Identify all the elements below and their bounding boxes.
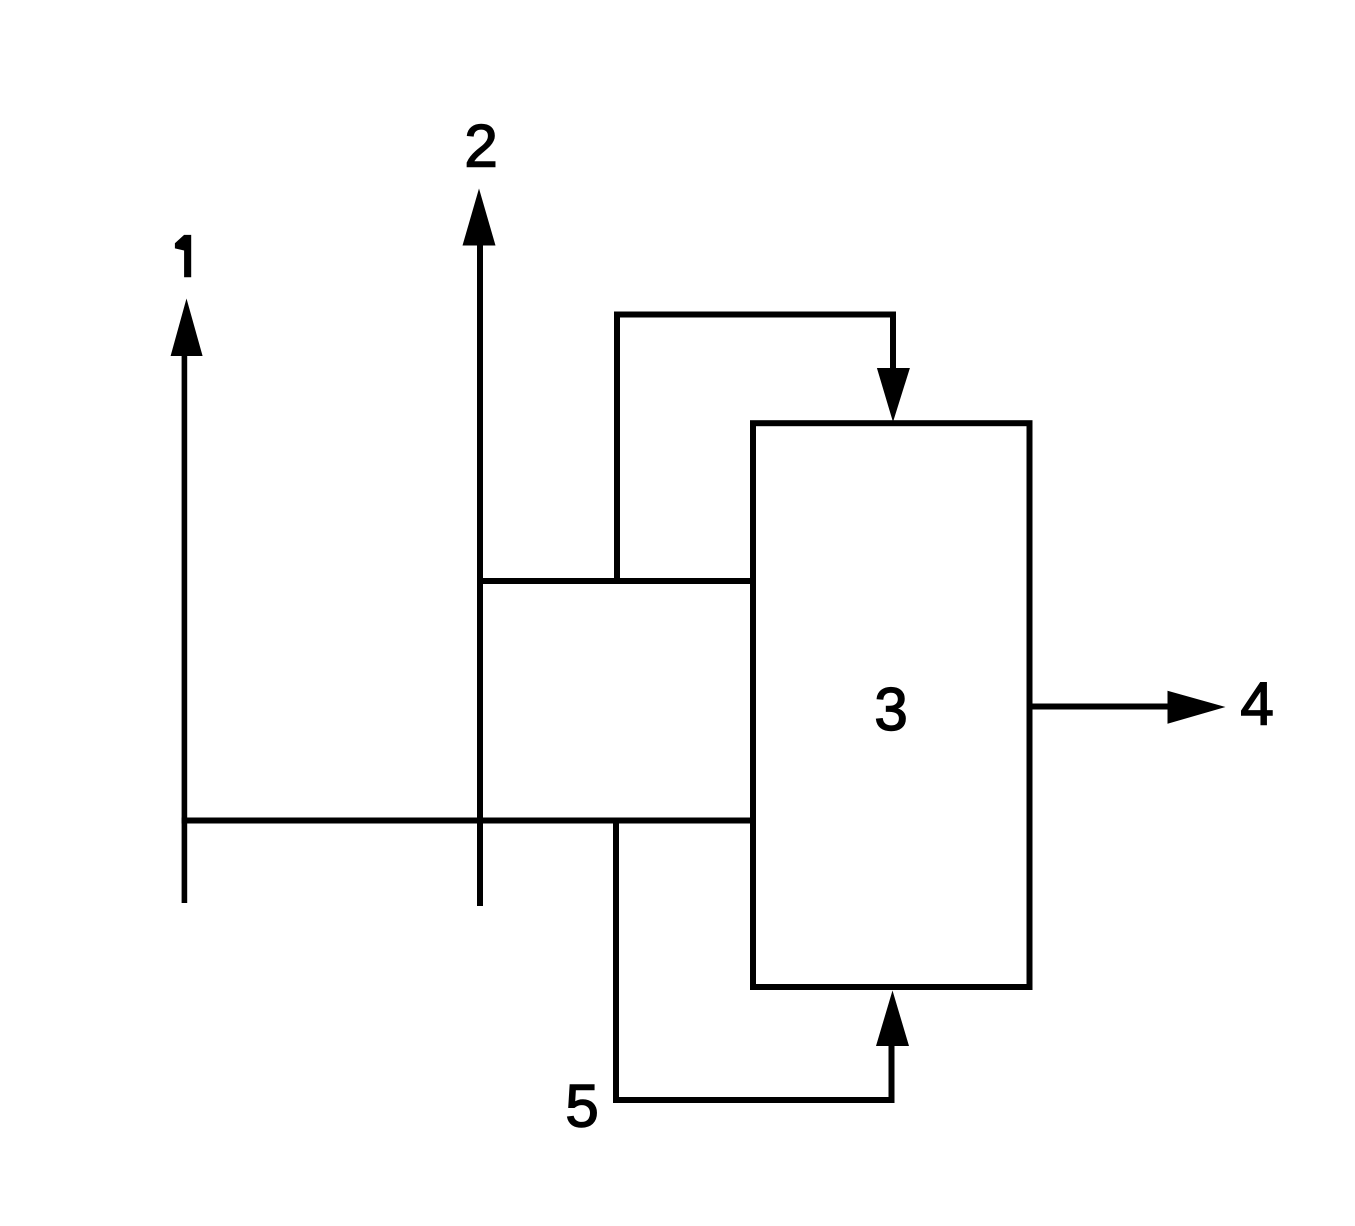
- wire: stream 5 path into bottom of unit 3: [616, 821, 892, 1101]
- wire: product stream 4 horizontal: [1032, 704, 1172, 710]
- arrowhead stream 1 (up): [171, 299, 203, 357]
- unit 3 box: [753, 423, 1030, 987]
- arrowhead stream 2 (up): [463, 189, 496, 246]
- label 3: [874, 676, 907, 743]
- svg-text:3: 3: [874, 676, 907, 743]
- arrowhead recycle loop (down into unit 3): [877, 368, 910, 422]
- svg-text:4: 4: [1240, 671, 1273, 738]
- label 4: [1240, 671, 1273, 738]
- wire: feed header horizontal (stream 1 to unit 3): [182, 818, 756, 824]
- svg-text:5: 5: [565, 1073, 598, 1140]
- wire: stream 1 vertical line: [182, 352, 188, 903]
- label 1: [175, 235, 191, 277]
- arrowhead stream 4 (right): [1168, 691, 1226, 724]
- wire: stream 2 vertical line: [477, 243, 483, 906]
- label 2: [464, 113, 497, 180]
- arrowhead stream 5 (up into unit 3): [876, 991, 909, 1047]
- wire: stream 2 to unit 3 horizontal: [477, 578, 756, 584]
- wire: recycle loop over top of unit 3: [617, 315, 893, 585]
- label 5: [565, 1073, 598, 1140]
- svg-text:2: 2: [464, 113, 497, 180]
